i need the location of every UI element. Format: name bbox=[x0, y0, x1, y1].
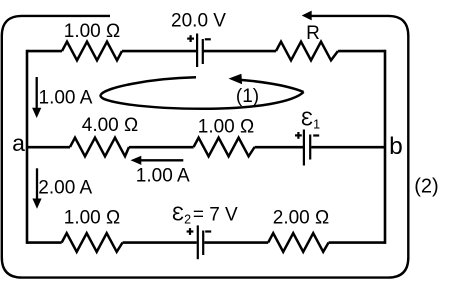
resistor R top right bbox=[276, 42, 338, 61]
svg-text:2.00 Ω: 2.00 Ω bbox=[273, 207, 329, 228]
loop 1 curve bottom arc bbox=[101, 92, 304, 109]
wire left vertical bbox=[26, 50, 29, 244]
svg-text:20.0 V: 20.0 V bbox=[171, 11, 226, 32]
wire middle row bbox=[27, 146, 385, 149]
svg-text:1.00 Ω: 1.00 Ω bbox=[64, 208, 120, 229]
svg-text:R: R bbox=[306, 23, 320, 44]
loop 2 direction arrowhead bbox=[302, 11, 312, 21]
current arrow 1.00 A down bbox=[36, 77, 38, 109]
battery emf 1 bbox=[295, 130, 319, 166]
svg-text:b: b bbox=[389, 133, 403, 160]
svg-text:(1): (1) bbox=[236, 86, 259, 107]
svg-text:(2): (2) bbox=[414, 175, 438, 197]
current arrow 1.00 A left bbox=[141, 159, 183, 161]
resistor 1.00 ohm middle bbox=[194, 138, 255, 157]
svg-text:1.00 A: 1.00 A bbox=[39, 87, 93, 108]
svg-text:1.00 Ω: 1.00 Ω bbox=[198, 117, 254, 138]
loop 1 arrowhead bbox=[229, 74, 243, 84]
battery emf 2 = 7 V bbox=[187, 225, 212, 259]
loop 1 curve top-left arc bbox=[101, 77, 196, 95]
svg-text:4.00 Ω: 4.00 Ω bbox=[82, 115, 138, 136]
resistor 1.00 ohm bottom bbox=[62, 233, 123, 252]
svg-text:2.00 A: 2.00 A bbox=[38, 178, 92, 199]
svg-text:1.00 Ω: 1.00 Ω bbox=[64, 21, 120, 42]
svg-text:1.00 A: 1.00 A bbox=[136, 166, 190, 187]
current arrow 2.00 A down bbox=[36, 168, 38, 199]
resistor 4.00 ohm bbox=[70, 138, 129, 157]
resistor 2.00 ohm bottom bbox=[268, 233, 328, 252]
loop 1 curve top-right arc bbox=[234, 79, 304, 92]
wire top row bbox=[27, 50, 385, 53]
svg-text:Ɛ2 = 7 V: Ɛ2 = 7 V bbox=[172, 204, 238, 227]
wire right vertical bbox=[384, 50, 387, 244]
battery 20.0 V bbox=[187, 34, 211, 68]
svg-text:a: a bbox=[12, 130, 25, 156]
resistor R1 1.00 ohm top bbox=[62, 42, 122, 61]
wire bottom row bbox=[27, 241, 385, 244]
